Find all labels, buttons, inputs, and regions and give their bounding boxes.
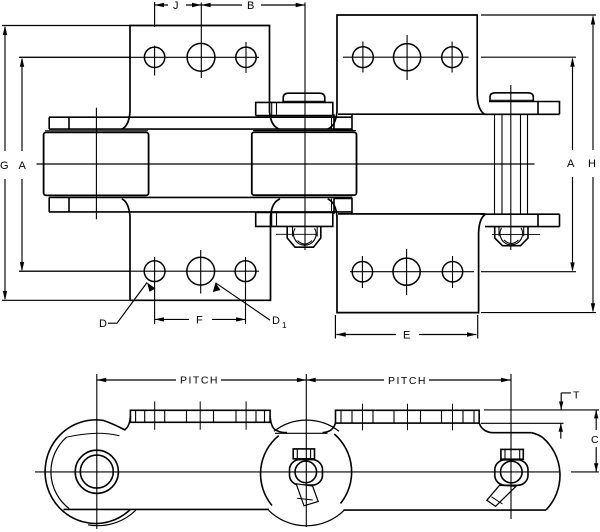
hole BL-2 [187,257,215,285]
left sidebar end strip bottom [49,197,69,212]
hole TR-1 vertical tick [362,42,364,73]
arrow A-right bottom [570,262,574,271]
hole BL-3 [235,261,256,282]
hole BR-1 [352,262,372,282]
attachment strip 1 (left) [130,410,270,422]
hole BL-1 [144,261,165,282]
hole BR-2 vertical tick [406,249,408,295]
chain centerline (horizontal) [37,163,535,165]
hole BL-1 vertical tick + F ext [154,257,156,324]
arrow leader D1 [213,283,221,292]
pin circle joint 2 [295,461,317,483]
arrow E left [336,332,345,336]
arrow H bottom [591,303,595,312]
roller 2 top arc [274,420,339,431]
dim H vertical [592,17,594,311]
cotter inner edges bottom middle [293,227,318,237]
strip 2 right bend fillet and dip [479,423,492,433]
ext line for J at hole TL-1 [154,2,156,27]
roller link far sidebar inner edge [49,196,352,198]
arrow J left [155,3,164,7]
pin P3 head base line [490,99,533,101]
hole BL-3 vertical tick + F ext [245,257,247,324]
ext T bottom (strip bottom extended) [481,422,564,424]
attachment strip 2 (right) [336,410,480,423]
dim C vertical [595,410,597,472]
roller link right end arc (around joint 2) [334,434,351,504]
pin circle joint 3 [501,461,523,483]
washer plate inner edges top [272,102,277,115]
svg-text:1: 1 [282,321,287,330]
roller link near sidebar inner edge [49,128,352,130]
dim J/B line segments [155,4,305,6]
svg-text:J: J [173,0,179,12]
strip 1 left bend fillet [124,416,130,430]
cotter leg joint 2 [296,484,318,506]
svg-text:C: C [591,434,599,446]
cotter leg joint 3 crease [492,497,503,504]
hole TR-3 vertical tick [451,42,453,73]
hole centerlines [19,3,576,325]
pin link near sidebar left segment (washer plate, top middle) [256,102,333,115]
cotter leg joint 2 crease [297,498,313,500]
ext H bottom (right plate bottom extended) [481,312,596,314]
hole TL-2 [187,43,215,71]
pin P3 centerline [510,85,512,250]
cotter inner arc bottom middle [298,241,313,245]
roller link left end inner arc [51,437,69,508]
arrow PITCH2 left [306,378,315,382]
pin P2 head base line [283,100,325,102]
pin P2 head (top middle, chamfered) [283,93,325,102]
pin P3 shaft lines [495,114,528,214]
strip 2 dividers [341,410,474,423]
pin link left end arc (around joint 2) [261,436,279,506]
hole row line TL [19,56,259,58]
hole BR-3 vertical tick [452,256,454,288]
pin 1 centerline vertical [96,374,98,529]
hole TR-3 [442,47,463,68]
arrow C top [594,410,598,419]
arrow T up [559,423,563,431]
pin 2 centerline vertical [305,374,307,527]
roller 2 bottom arc [269,510,345,526]
roller R-left [44,132,149,195]
dim T lower arrow line [560,423,562,438]
arrow PITCH1 right [297,378,306,382]
svg-text:D: D [99,318,107,330]
arrow B right [296,3,305,7]
top view labels [0,0,596,342]
pin P1 centerline [95,108,97,220]
arrow PITCH2 right [501,378,510,382]
plate K-right-top outline with bend fillets [328,15,485,129]
pin head joint 3 [501,449,523,459]
plate K-left-top outline with bend fillets [122,26,279,130]
arrow G bottom [3,291,7,300]
bottom view dimensions [97,380,599,472]
hole TR-2 [394,44,421,71]
pin link right end arc [532,433,560,510]
left link waist bottom line [64,508,270,510]
hole TL-1 vertical tick [154,46,156,76]
far sidebar level line middle notch [275,432,328,434]
ext E right [477,315,479,339]
strip 1 dividers [136,410,265,422]
dim PITCH-1 line [97,379,306,381]
hole BL-2 vertical tick [200,250,202,294]
pin P3 head (top right, chamfered) [490,93,533,102]
hole BR-3 [442,262,462,282]
cotter inner arc bottom right [504,240,519,244]
ext H top (right plate top extended) [481,14,596,16]
svg-text:PITCH: PITCH [388,375,427,387]
arrow leader D [147,283,156,292]
cotter inner edges bottom right [499,227,524,236]
roller 1 bottom arc [88,510,136,525]
bushing blob joint 3 [495,460,528,486]
hole TL-1 [144,47,164,67]
hole BR-2 [393,258,420,285]
arrow H top [591,15,595,25]
dim PITCH-2 line [306,379,510,381]
pin head joint 2 [293,449,314,459]
hole TR-1 [353,47,374,68]
arrow F left [155,317,164,321]
strip 2 hole ticks [363,404,453,431]
arrow C bottom [594,463,598,472]
strip 2 left bend fillet and dip [323,423,336,433]
pin circle joint 1 [80,455,113,488]
cotter circle bottom right [500,228,523,245]
far sidebar dip line left [67,433,120,437]
dim A-right vertical [572,59,574,270]
chain centerline bottom view [35,471,599,473]
arrow A-left bottom [20,262,24,271]
arrowheads top view [3,3,595,337]
arrow T down [559,402,563,410]
pin P2 centerline [304,3,306,251]
ext A-left bottom [19,270,130,272]
arrow B left [201,3,210,7]
pin link top edge right [493,432,532,434]
svg-text:H: H [588,158,596,170]
svg-text:F: F [196,315,203,327]
dim T bracket [561,393,571,410]
pin 3 centerline vertical [510,374,512,519]
pin link far sidebar right segment [480,214,560,226]
arrow G top [3,26,7,36]
cotter centerline bottom middle [276,233,317,235]
cotter centerline bottom right [492,233,540,235]
pin head joint 3 inner lines [505,449,520,459]
plate K-right-bottom outline with bend fillets [328,199,486,313]
attachment holes [144,43,462,285]
roller link near sidebar top edge [49,116,352,118]
hole row line BL + A ext left [19,270,259,272]
roller link far sidebar outer edge [49,211,352,213]
strip 1 hole ticks [155,401,246,429]
left sidebar end strip top [49,117,69,129]
bushing washer under right plate bottom [334,198,352,214]
pin link far sidebar left segment (washer plate, bottom middle) [256,212,333,226]
svg-text:E: E [403,330,410,342]
svg-text:D: D [272,315,280,327]
pin link near sidebar right segment [484,102,560,115]
ext A-left top [19,56,131,58]
right link bottom edge [344,509,547,511]
cotter bracket bottom right [495,227,528,246]
svg-text:A: A [567,158,575,170]
sidebar top dip left of strip 1 [104,421,126,431]
hole row line TR + A ext right [343,56,576,58]
svg-text:A: A [19,160,27,172]
dim E line [336,334,476,336]
leader D1 [216,283,271,320]
hole BR-1 vertical tick [361,256,363,288]
svg-text:G: G [0,160,9,172]
arrow F right [236,317,245,321]
bottom view centerlines [35,374,599,529]
svg-text:B: B [247,0,254,12]
arrow J right [192,3,201,7]
hole TL-3 [236,47,256,67]
arrow PITCH1 left [97,378,106,382]
bottom view arrowheads [97,378,599,472]
bushing circle joint 1 [75,450,118,493]
ext G top (plate top edge extended) [2,25,130,27]
hole TR-2 vertical tick [406,35,408,80]
hole TL-2 vertical (extends to dim line) [200,3,202,79]
arrow A-right top [570,57,574,66]
dim G vertical [4,27,6,299]
roller R-mid [252,132,357,195]
svg-text:T: T [573,390,580,402]
cotter bracket bottom middle [287,226,321,247]
pin head joint 2 inner lines [297,449,310,459]
leader D [108,283,147,324]
plate K-right-top bottom edge [338,113,485,115]
arrow A-left top [20,57,24,67]
bottom view labels [180,375,599,447]
hole TL-3 vertical tick [245,42,247,73]
roller R-left flange line [45,130,148,132]
roller R-mid flange line [253,130,356,132]
ext E left [334,315,336,339]
bushing washer under right plate top [334,114,352,130]
dim F line [155,318,246,320]
cotter circle bottom middle [294,228,317,245]
bushing blob joint 2 [290,460,323,486]
dim A-left vertical [21,59,23,270]
cotter leg joint 3 [487,485,516,506]
arrow E right [467,332,476,336]
ext T top (strip top extended) [484,409,599,411]
attachment plates (top view) [122,15,486,313]
washer plate inner edges bottom [272,212,277,226]
strip 1 right bend fillet and dip [270,416,287,433]
hole row line BR + A ext right [350,271,576,273]
plate K-left-bottom outline with bend fillets [122,199,280,300]
plate K-right-bottom top edge [338,213,485,215]
svg-text:PITCH: PITCH [180,375,219,387]
roller link left end outer arc [45,420,130,524]
small vertical at washer right top [331,117,333,211]
ext G bottom (plate bottom edge extended) [2,299,129,301]
